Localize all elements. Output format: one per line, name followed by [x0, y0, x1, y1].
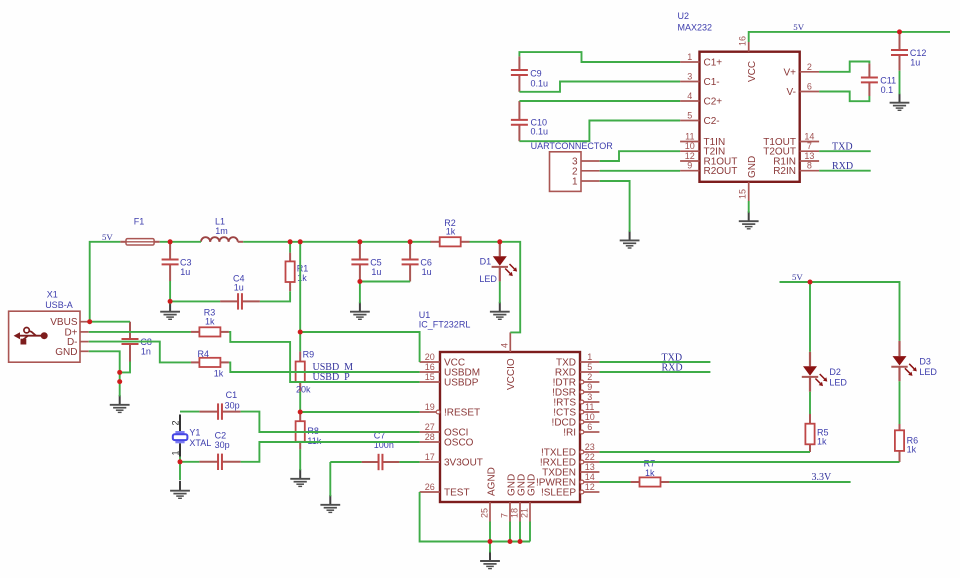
- label R4: [198, 349, 224, 379]
- U1 pin 3 (!RTS): [580, 400, 599, 404]
- U2 pin 9 (R2OUT): [680, 170, 699, 172]
- svg-text:6: 6: [807, 82, 812, 92]
- wire U2 R2IN RXD: [819, 170, 871, 172]
- net label 5V (top left): [102, 232, 113, 242]
- svg-text:12: 12: [585, 482, 595, 492]
- svg-text:GND: GND: [747, 156, 758, 178]
- svg-text:GND: GND: [55, 347, 77, 358]
- svg-text:5: 5: [587, 362, 592, 372]
- U1 pin 7 (GND): [509, 502, 511, 522]
- wire UART2 to U2 R2OUT: [600, 170, 680, 172]
- ground symbol under U2: [739, 211, 759, 229]
- label Y1 value: [189, 438, 211, 448]
- U1 pin 4 (VCCIO): [509, 332, 511, 352]
- svg-text:D2: D2: [829, 367, 841, 377]
- junction 5V / C12: [897, 29, 902, 34]
- U1 pin label OSCO: [444, 438, 474, 449]
- svg-text:23: 23: [585, 442, 595, 452]
- label U1 value: [419, 320, 471, 330]
- svg-text:18: 18: [510, 508, 520, 518]
- U2 pin label R2IN: [773, 166, 796, 177]
- U2 pin 5 (C2-): [680, 120, 699, 122]
- svg-text:AGND: AGND: [487, 467, 498, 496]
- svg-text:1: 1: [572, 177, 578, 188]
- svg-text:1k: 1k: [446, 227, 456, 237]
- resistor R3: [191, 327, 229, 336]
- label R2: [444, 218, 456, 237]
- pin number 8 (U2 pin 8 (R2IN)): [807, 161, 812, 171]
- connector UARTCONNECTOR box: [550, 152, 582, 192]
- wire C10 top to U2 pin4: [519, 100, 680, 102]
- svg-text:1m: 1m: [215, 226, 228, 236]
- wire !PWREN to R7: [599, 481, 630, 483]
- U2 pin 6 (V-): [800, 91, 819, 93]
- ground symbol under U1: [480, 551, 500, 569]
- inductor L1: [201, 237, 243, 242]
- label D2: [829, 367, 847, 387]
- wire C10 bottom to U2 pin5: [519, 121, 680, 142]
- svg-text:1u: 1u: [422, 267, 432, 277]
- wire R9 bottom to RESET node: [299, 392, 301, 412]
- wire !RXLED to R6: [599, 461, 899, 463]
- net label RXD (U1): [662, 362, 683, 373]
- svg-text:2: 2: [171, 420, 181, 425]
- svg-text:1k: 1k: [214, 369, 224, 379]
- U2 pin 13 (R1IN): [800, 160, 819, 162]
- X1 pin name VBUS: [50, 317, 78, 328]
- svg-text:21: 21: [520, 508, 530, 518]
- capacitor C8: [122, 322, 139, 362]
- U1 pin 15 (USBDP): [420, 381, 440, 383]
- svg-text:27: 27: [425, 422, 435, 432]
- wire C3 to C4 node: [169, 281, 171, 301]
- junction gnd bus / AGND: [488, 539, 493, 544]
- svg-text:15: 15: [425, 372, 435, 382]
- svg-text:!RESET: !RESET: [444, 408, 480, 419]
- pin number 19 (U1 pin 19 (!RESET)): [425, 402, 435, 412]
- pin number 7 (U2 pin 7 (T2OUT)): [807, 141, 812, 151]
- label R3: [204, 308, 216, 327]
- pin number 25 (U1 pin 25 (AGND)): [480, 508, 490, 518]
- junction 5V rail / C3: [168, 239, 173, 244]
- UART pin 2 stub: [581, 170, 600, 172]
- label C11: [880, 75, 896, 95]
- label C2: [215, 431, 230, 451]
- pin number 18 (U1 pin 18 (GND)): [510, 508, 520, 518]
- pin number 1 (U2 pin 1 (C1+)): [687, 52, 692, 62]
- pin number 17 (U1 pin 17 (3V3OUT)): [425, 452, 435, 462]
- svg-text:14: 14: [804, 132, 814, 142]
- pin number 5 (U2 pin 5 (C2-)): [687, 111, 692, 121]
- wire C9 bottom to U2 pin3: [519, 82, 680, 92]
- pin number 1 (U1 pin 1 (TXD)): [587, 352, 592, 362]
- capacitor C1: [199, 403, 240, 419]
- U1 pin label TXDEN: [542, 468, 576, 479]
- svg-text:R4: R4: [198, 349, 210, 359]
- svg-text:26: 26: [425, 482, 435, 492]
- svg-text:R2OUT: R2OUT: [704, 166, 738, 177]
- svg-text:1u: 1u: [180, 267, 190, 277]
- net label TXD (U1): [662, 352, 683, 363]
- U1 pin label USBDP: [444, 378, 479, 389]
- junction 5V rail / C6: [408, 239, 413, 244]
- svg-text:X1: X1: [47, 290, 58, 300]
- crystal Y1: [173, 415, 188, 457]
- junction 5V rail / C5: [357, 239, 362, 244]
- Y1 pin number 2: [171, 420, 181, 425]
- svg-text:TEST: TEST: [444, 488, 470, 499]
- capacitor C6: [402, 242, 419, 282]
- svg-text:5V: 5V: [102, 232, 113, 242]
- wire node to C4: [170, 300, 220, 302]
- wire to C7: [330, 461, 361, 463]
- junction gnd bus / GND7: [508, 539, 513, 544]
- ground symbol under C12: [890, 93, 910, 111]
- wire 5V to U2 VCC: [749, 32, 950, 42]
- svg-text:1: 1: [587, 352, 592, 362]
- wire Y1 node to ground: [179, 462, 181, 480]
- pin number 15 (U1 pin 15 (USBDP)): [425, 372, 435, 382]
- label X1: [47, 290, 58, 300]
- U1 pin 20 (VCC): [420, 361, 440, 363]
- capacitor C10: [511, 101, 528, 141]
- capacitor C4: [220, 293, 260, 309]
- U2 pin 8 (R2IN): [800, 170, 819, 172]
- junction C5/C6/ground: [357, 279, 362, 284]
- capacitor C3: [162, 242, 179, 281]
- svg-text:11: 11: [585, 402, 594, 412]
- label C4: [233, 274, 245, 293]
- wire C8 bottom to GND node: [120, 362, 130, 373]
- ground symbol USB: [110, 395, 130, 413]
- pin number 4 (U2 pin 4 (C2+)): [687, 91, 692, 101]
- label L1: [215, 217, 225, 227]
- LED D3: [891, 341, 917, 381]
- junction 5V rail / R1: [288, 239, 293, 244]
- U2 pin label C2-: [704, 116, 720, 127]
- pin number 16 (U1 pin 16 (USBDM)): [425, 362, 435, 372]
- junction gnd bus / GND18: [518, 539, 523, 544]
- svg-text:C11: C11: [880, 75, 896, 85]
- resistor R7: [631, 477, 670, 486]
- label R1: [297, 264, 309, 284]
- fuse F1: [120, 239, 159, 245]
- pin number 20 (U1 pin 20 (VCC)): [425, 352, 435, 362]
- net label 3.3V: [812, 472, 833, 483]
- svg-text:1u: 1u: [910, 58, 920, 68]
- ground symbol under R8: [290, 469, 310, 487]
- pin number (X1 pin D+ stub): [0, 0, 1, 1]
- svg-text:10: 10: [585, 412, 595, 422]
- svg-text:5V: 5V: [792, 272, 803, 282]
- svg-text:7: 7: [500, 513, 510, 518]
- svg-text:LED: LED: [919, 367, 937, 377]
- svg-text:C2: C2: [215, 431, 227, 441]
- pin number 27 (U1 pin 27 (OSCI)): [425, 422, 435, 432]
- svg-text:UARTCONNECTOR: UARTCONNECTOR: [531, 141, 614, 151]
- U1 pin 19 (!RESET): [420, 410, 440, 414]
- junction rail / D1: [497, 239, 502, 244]
- wire C4 to R1 bottom: [260, 291, 290, 301]
- U1 label AGND (rotated): [487, 467, 498, 496]
- svg-text:0.1u: 0.1u: [531, 126, 549, 136]
- U2 pin label T1OUT: [763, 137, 796, 148]
- U2 pin 11 (T1IN): [680, 141, 699, 143]
- wire U2 V+ to C11 top: [819, 62, 869, 72]
- pin number 11 (U2 pin 11 (T1IN)): [685, 132, 694, 142]
- pin number 13 (U1 pin 13 (TXDEN)): [585, 462, 595, 472]
- wire node to ground (C3): [169, 301, 171, 304]
- svg-text:R8: R8: [307, 426, 319, 436]
- label C10: [531, 117, 549, 136]
- U2 pin 2 (V+): [800, 71, 819, 73]
- capacitor C12: [891, 33, 908, 71]
- wire fuse to inductor L1: [160, 241, 201, 243]
- U2 pin label C2+: [704, 97, 723, 108]
- svg-text:VCC: VCC: [747, 61, 758, 82]
- svg-text:4: 4: [500, 343, 510, 348]
- wire AGND down: [489, 522, 491, 542]
- wire VBUS to C8: [90, 321, 130, 323]
- U1 pin label 3V3OUT: [444, 458, 483, 469]
- wire C1 to OSCI: [241, 412, 420, 432]
- U1 pin 13 (TXDEN): [580, 471, 599, 473]
- op-amp U1 IC_FT232RL box: [440, 352, 580, 502]
- pin number 6 (U2 pin 6 (V-)): [807, 82, 812, 92]
- pin number 7 (U1 pin 7 (GND)): [500, 513, 510, 518]
- pin number 13 (U2 pin 13 (R1IN)): [804, 151, 814, 161]
- UART pin 1 stub: [581, 180, 600, 182]
- wire !TXLED to R5: [599, 451, 810, 453]
- net label 5V (LED rail): [792, 272, 803, 282]
- pin number 9 (U1 pin 9 (!DSR)): [587, 382, 592, 392]
- junction GND/C8: [117, 370, 122, 375]
- wire crystal pin1 to C2 node: [179, 457, 181, 462]
- svg-text:1: 1: [171, 450, 181, 455]
- pin number 28 (U1 pin 28 (OSCO)): [425, 432, 435, 442]
- ground symbol under D1: [490, 302, 510, 320]
- wire VCC node to R9 top: [299, 332, 301, 351]
- X1 pin D+ stub: [80, 331, 89, 333]
- wire 5V rail (LEDs): [780, 282, 900, 341]
- wire U1 RXD out: [599, 371, 710, 373]
- pin number 21 (U1 pin 21 (GND)): [520, 508, 530, 518]
- pin number 22 (U1 pin 22 (!RXLED)): [585, 452, 595, 462]
- svg-text:R1: R1: [297, 264, 309, 274]
- UART pin number 1: [572, 177, 578, 188]
- U1 pin 12 (!SLEEP): [580, 490, 599, 494]
- pin number 6 (U1 pin 6 (!RI)): [587, 422, 592, 432]
- U2 pin 7 (T2OUT): [800, 150, 819, 152]
- svg-text:30p: 30p: [225, 400, 240, 410]
- pin number 9 (U2 pin 9 (R2OUT)): [687, 161, 692, 171]
- svg-text:1k: 1k: [205, 316, 215, 326]
- svg-text:11k: 11k: [307, 436, 321, 446]
- label U2 value: [678, 23, 713, 33]
- pin number 14 (U1 pin 14 (!PWREN)): [585, 472, 595, 482]
- resistor R5: [805, 414, 814, 452]
- wire D+ to R3: [89, 331, 191, 333]
- capacitor C7: [362, 454, 400, 470]
- label C12: [910, 48, 927, 68]
- LED D1: [492, 242, 517, 282]
- U2 pin 10 (T2IN): [680, 150, 699, 152]
- svg-text:1n: 1n: [141, 346, 151, 356]
- wire UART1 to ground: [600, 181, 630, 232]
- svg-text:C12: C12: [910, 48, 927, 58]
- wire R2 to VCCIO feed: [470, 242, 521, 333]
- svg-text:5V: 5V: [793, 22, 804, 32]
- X1 pin name GND: [55, 347, 77, 358]
- wire U1 TXD out: [599, 361, 710, 363]
- U1 label VCCIO (rotated): [506, 358, 517, 390]
- resistor R8: [296, 412, 305, 449]
- svg-text:D3: D3: [919, 357, 931, 367]
- U1 pin label !TXLED: [541, 448, 576, 459]
- svg-text:16: 16: [738, 36, 748, 46]
- resistor R9: [296, 351, 305, 391]
- svg-text:9: 9: [587, 382, 592, 392]
- label R9: [296, 349, 314, 394]
- U1 pin 21 (GND): [529, 502, 531, 522]
- net label USBD_P: [313, 372, 351, 383]
- U1 pin 26 (TEST): [420, 491, 440, 493]
- wire 5V rail L1 to R2: [243, 241, 430, 243]
- pin number 2 (U1 pin 2 (!DTR)): [587, 372, 592, 382]
- label C9: [530, 68, 548, 88]
- svg-text:1k: 1k: [297, 273, 307, 283]
- wire D- to R4: [89, 342, 191, 363]
- U1 pin label VCC: [444, 358, 465, 369]
- svg-text:28: 28: [425, 432, 435, 442]
- svg-text:2: 2: [807, 62, 812, 72]
- U1 pin label !DCD: [552, 418, 576, 429]
- pin number (X1 pin GND stub): [0, 0, 1, 1]
- U2 pin label C1-: [704, 77, 720, 88]
- X1 pin VBUS stub: [80, 321, 89, 323]
- svg-text:1k: 1k: [645, 468, 655, 478]
- svg-text:0.1u: 0.1u: [531, 78, 549, 88]
- wire D3 to R6: [899, 381, 901, 424]
- svg-text:15: 15: [738, 189, 748, 199]
- U1 pin 2 (!DTR): [580, 380, 599, 384]
- pin number 11 (U1 pin 11 (!CTS)): [585, 402, 594, 412]
- svg-text:3V3OUT: 3V3OUT: [444, 458, 483, 469]
- pin number 5 (U1 pin 5 (RXD)): [587, 362, 592, 372]
- svg-text:LED: LED: [479, 274, 497, 284]
- wire UART3 to U2 T2IN: [600, 151, 680, 161]
- op-amp U2 MAX232 box: [700, 52, 800, 182]
- USB trident icon: [14, 328, 48, 345]
- junction VCC feed / R9: [298, 330, 303, 335]
- net label USBD_M: [313, 362, 354, 373]
- UART pin number 3: [572, 157, 578, 168]
- U2 label VCC (rotated): [747, 61, 758, 82]
- svg-text:30p: 30p: [215, 440, 230, 450]
- wire TEST to ground bus: [420, 492, 530, 542]
- U2 pin 14 (T1OUT): [800, 141, 819, 143]
- svg-text:F1: F1: [134, 217, 145, 227]
- U2 pin 16 (VCC): [748, 42, 750, 52]
- svg-text:!SLEEP: !SLEEP: [541, 488, 576, 499]
- junction Y1/C2/ground: [178, 459, 183, 464]
- resistor R6: [895, 424, 904, 462]
- label R7: [644, 458, 656, 478]
- svg-text:0.1: 0.1: [881, 85, 894, 95]
- wire C5 node to ground: [359, 282, 361, 304]
- U1 pin 5 (RXD): [580, 371, 599, 373]
- U2 pin label T2IN: [704, 147, 726, 158]
- wire C2 to OSCO: [241, 442, 420, 462]
- U1 pin 6 (!RI): [580, 430, 599, 434]
- svg-text:C1: C1: [226, 390, 238, 400]
- svg-text:3: 3: [587, 392, 592, 402]
- X1 pin GND stub: [80, 350, 89, 352]
- pin number 3 (U2 pin 3 (C1-)): [687, 72, 692, 82]
- svg-text:USB-A: USB-A: [45, 300, 73, 310]
- pin number 3 (U1 pin 3 (!RTS)): [587, 392, 592, 402]
- U1 pin label !RTS: [553, 398, 576, 409]
- svg-text:19: 19: [425, 402, 435, 412]
- U1 pin label !RXLED: [540, 458, 576, 469]
- svg-text:1: 1: [687, 52, 692, 62]
- svg-text:U1: U1: [419, 310, 431, 320]
- wire crystal pin2 row to C1: [180, 411, 199, 413]
- label D1: [479, 257, 497, 285]
- U1 pin 18 (GND): [519, 502, 521, 522]
- svg-text:7: 7: [807, 141, 812, 151]
- U1 pin 11 (!CTS): [580, 410, 599, 414]
- pin number 15 (U2 pin 15 (GND)): [738, 189, 748, 199]
- U1 pin 9 (!DSR): [580, 390, 599, 394]
- LED D2: [802, 352, 828, 392]
- svg-text:3: 3: [687, 72, 692, 82]
- U1 pin 10 (!DCD): [580, 420, 599, 424]
- label F1: [134, 217, 145, 227]
- U1 label GND 21 (rotated): [527, 474, 538, 496]
- svg-text:VCCIO: VCCIO: [506, 358, 517, 390]
- svg-text:20: 20: [425, 352, 435, 362]
- label C7: [374, 431, 394, 451]
- svg-text:17: 17: [425, 452, 435, 462]
- U2 pin label R1OUT: [704, 157, 738, 168]
- U2 pin label C1+: [704, 58, 723, 69]
- U1 pin label TEST: [444, 488, 470, 499]
- svg-text:C2-: C2-: [704, 116, 720, 127]
- X1 pin D- stub: [80, 341, 89, 343]
- net label TXD (U2): [832, 142, 853, 153]
- svg-text:USBDP: USBDP: [444, 378, 479, 389]
- wire R7 to 3.3V: [669, 481, 850, 483]
- wire U2 GND down: [748, 201, 750, 213]
- wire gnd bus to ground: [489, 542, 491, 553]
- pin number (X1 pin D- stub): [0, 0, 1, 1]
- U1 pin label !CTS: [553, 408, 576, 419]
- svg-text:9: 9: [687, 161, 692, 171]
- net label RXD (U2): [832, 161, 853, 172]
- label UARTCONNECTOR: [531, 141, 614, 151]
- wire rail to R1 top: [289, 242, 291, 253]
- svg-text:R7: R7: [644, 458, 656, 468]
- junction GND node 2: [117, 379, 122, 384]
- label C1: [225, 390, 240, 410]
- pin number 4 (U1 pin 4 (VCCIO)): [500, 343, 510, 348]
- svg-text:11: 11: [685, 132, 694, 142]
- svg-text:C3: C3: [180, 257, 192, 267]
- pin number 16 (U2 pin 16 (VCC)): [738, 36, 748, 46]
- svg-text:1u: 1u: [371, 267, 381, 277]
- U1 pin 16 (USBDM): [420, 371, 440, 373]
